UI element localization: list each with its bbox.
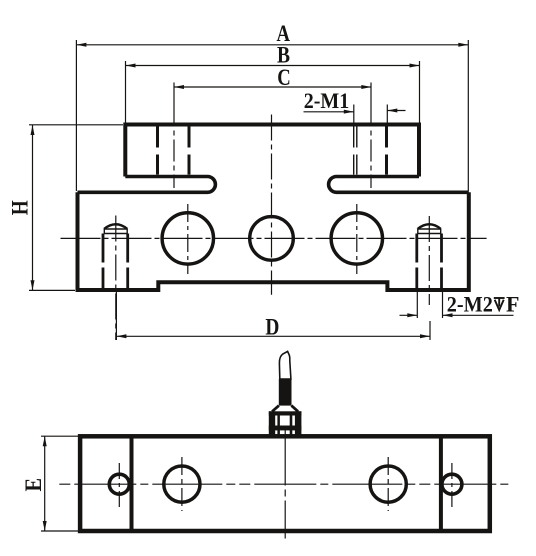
svg-text:H: H bbox=[7, 200, 32, 215]
svg-text:D: D bbox=[265, 314, 279, 339]
svg-text:2-M1: 2-M1 bbox=[304, 88, 350, 113]
svg-text:B: B bbox=[277, 43, 290, 68]
svg-text:F: F bbox=[506, 291, 519, 316]
svg-text:E: E bbox=[21, 478, 46, 492]
svg-text:C: C bbox=[277, 65, 291, 90]
svg-text:2-M2: 2-M2 bbox=[447, 291, 493, 316]
